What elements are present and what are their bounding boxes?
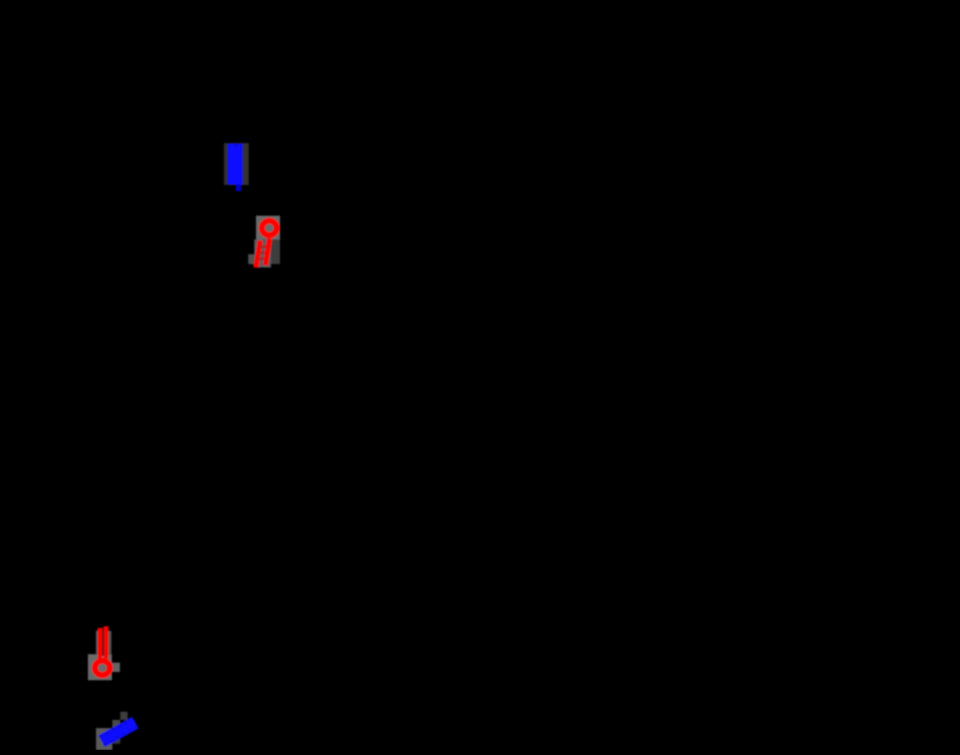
halo tab right of O2 label: [112, 663, 120, 672]
nitrile triple bond N2 (blue slanted bar, solid): [98, 717, 138, 747]
gap notch at top of N1 triple bond: [234, 144, 237, 150]
halo strip right of N1 bar: [242, 143, 248, 185]
halo strip right of C1=O1 double bond: [271, 240, 280, 265]
halo block behind C1=O1 double bond: [254, 240, 271, 268]
gap stripe b inside N2 triple bond: [104, 727, 138, 746]
red bleed rung 2 between C1=O1 lines: [258, 251, 266, 254]
red bleed rung 1 between C1=O1 lines: [259, 245, 267, 248]
dark gap between C2=O2 double bond lines: [102, 627, 104, 656]
carbonyl O2 label (red O): [95, 661, 110, 675]
red bleed rung 3 between C1=O1 lines: [257, 257, 265, 260]
halo strip behind C2=O2 double bond: [96, 631, 111, 654]
halo patch left of carbonyl C1: [248, 254, 255, 264]
C1=O1 double bond line a: [256, 241, 260, 268]
nitrile triple bond N1 (blue vertical bar): [228, 144, 243, 185]
C2=O2 double bond line b: [104, 626, 109, 658]
halo block behind carbonyl O1 label: [256, 216, 280, 240]
halo block 4 right of N2 bar bottom: [112, 736, 120, 744]
C1=O1 double bond line b: [265, 238, 269, 265]
gap stripe a inside N2 triple bond: [100, 719, 134, 738]
halo block behind carbonyl O2 label: [88, 654, 112, 680]
bond stub below N1 (blue tail): [236, 185, 241, 192]
halo block around nitrile N1 bar: [224, 143, 249, 185]
halo block 1 above nitrile N2 bar: [120, 712, 127, 720]
carbonyl O1 label (red O): [262, 221, 277, 235]
C2=O2 double bond line a: [98, 628, 103, 659]
halo block 2 left of nitrile N2 bar: [112, 720, 120, 736]
halo block 3 below nitrile N2 bar: [96, 728, 112, 750]
